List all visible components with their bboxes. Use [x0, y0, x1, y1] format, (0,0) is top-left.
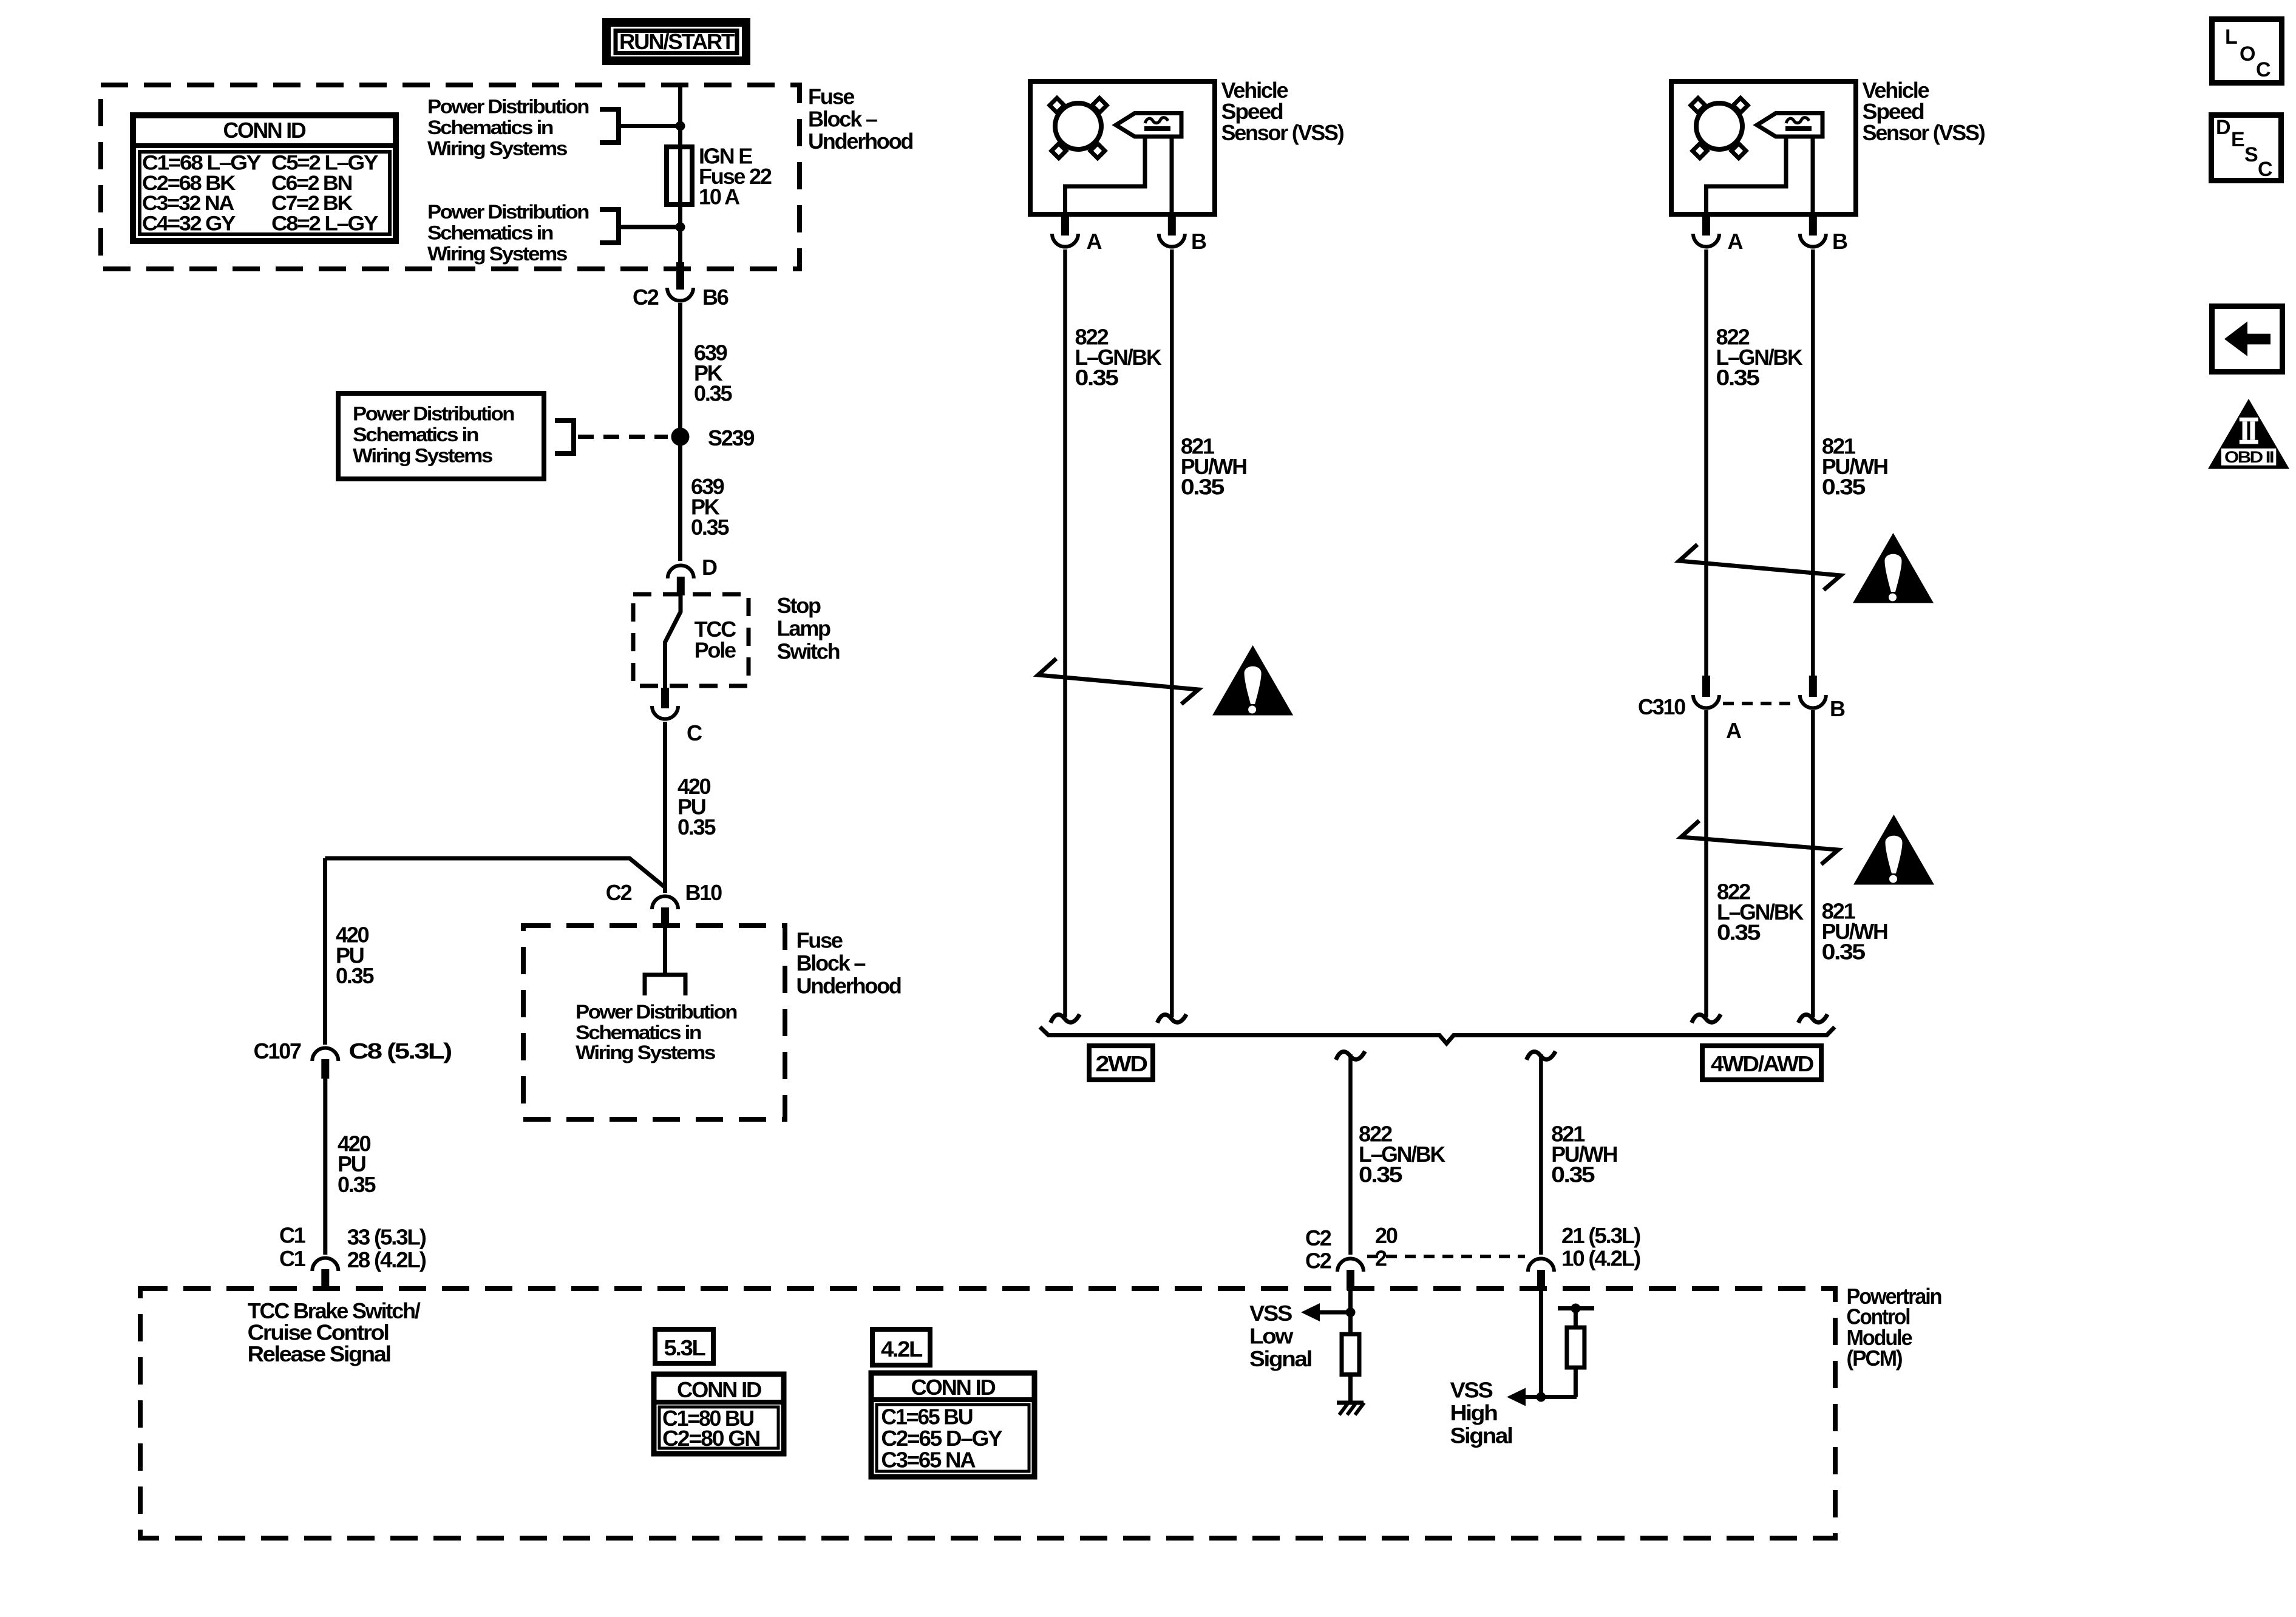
label C8 (5.3L)	[348, 1039, 452, 1063]
svg-text:Wiring Systems: Wiring Systems	[353, 445, 493, 467]
label C2 (B10)	[606, 880, 632, 905]
svg-text:C3=65 NA: C3=65 NA	[881, 1448, 976, 1473]
svg-text:0.35: 0.35	[338, 1172, 376, 1197]
component box Powertrain Control Module (dashed)	[140, 1289, 1835, 1538]
svg-text:Pole: Pole	[695, 638, 736, 663]
svg-text:Sensor (VSS): Sensor (VSS)	[1221, 120, 1344, 145]
svg-text:C1: C1	[279, 1223, 306, 1248]
label Vehicle Speed Sensor VSS (right)	[1863, 78, 1985, 145]
reference bracket S239 (dashed)	[555, 421, 668, 453]
label pins 20 2	[1375, 1223, 1398, 1271]
svg-text:VSS: VSS	[1249, 1301, 1292, 1326]
wire 420 PU branch lower	[323, 1079, 327, 1255]
svg-text:Signal: Signal	[1249, 1346, 1311, 1371]
svg-text:B: B	[1832, 229, 1847, 254]
connector C	[652, 688, 678, 719]
svg-text:Switch: Switch	[777, 639, 840, 663]
svg-text:B6: B6	[702, 285, 729, 310]
icon sensor pickup (right)	[1757, 114, 1822, 137]
label 33 (5.3L) 28 (4.2L)	[347, 1225, 426, 1273]
svg-text:0.35: 0.35	[1551, 1162, 1595, 1187]
junction dot (lower)	[676, 222, 685, 232]
label C1 C1	[279, 1223, 306, 1271]
svg-text:0.35: 0.35	[1359, 1162, 1402, 1187]
connector pin A (left)	[1052, 214, 1078, 247]
svg-text:0.35: 0.35	[1075, 365, 1119, 390]
svg-text:C5=2 L–GY: C5=2 L–GY	[271, 152, 379, 175]
svg-text:0.35: 0.35	[1181, 474, 1224, 499]
note Power Distribution Schematics in Wiring Systems (upper)	[427, 96, 589, 160]
svg-text:C2=80 GN: C2=80 GN	[662, 1426, 759, 1451]
svg-text:2: 2	[1375, 1246, 1387, 1271]
svg-text:0.35: 0.35	[1717, 920, 1761, 944]
wire stub into fuse block (continuation symbol)	[645, 927, 685, 995]
svg-text:28 (4.2L): 28 (4.2L)	[347, 1247, 426, 1272]
wire 822 L-GN/BK (to PCM)	[1348, 1054, 1353, 1255]
svg-text:Signal: Signal	[1450, 1423, 1512, 1448]
label Powertrain Control Module (PCM)	[1847, 1284, 1941, 1371]
connector pin B (left)	[1159, 214, 1185, 247]
wire 822 L-GN/BK (left A)	[1063, 249, 1067, 1017]
svg-text:High: High	[1450, 1400, 1497, 1425]
svg-text:Fuse: Fuse	[808, 84, 854, 109]
icon back arrow	[2212, 307, 2283, 372]
svg-text:Schematics in: Schematics in	[576, 1022, 701, 1043]
svg-text:C3=32 NA: C3=32 NA	[142, 192, 234, 215]
label C	[687, 720, 702, 745]
svg-text:Power Distribution: Power Distribution	[576, 1001, 737, 1023]
label C2 (B6)	[633, 285, 659, 310]
note box Power Distribution (S239)	[338, 393, 544, 479]
wire ignition feed	[678, 85, 682, 262]
svg-text:Power Distribution: Power Distribution	[353, 403, 514, 425]
label A (right)	[1728, 229, 1744, 254]
svg-text:Wiring Systems: Wiring Systems	[427, 243, 568, 265]
wire end squiggle (left B)	[1157, 1014, 1186, 1023]
reference bracket (upper)	[600, 109, 676, 143]
svg-text:10 (4.2L): 10 (4.2L)	[1561, 1246, 1640, 1271]
svg-text:0.35: 0.35	[336, 963, 374, 988]
svg-text:CONN ID: CONN ID	[911, 1375, 996, 1400]
arrow VSS Low Signal	[1301, 1303, 1351, 1321]
svg-text:D: D	[702, 555, 717, 580]
wire 821 PU/WH (left B)	[1170, 249, 1174, 1017]
connector C107 C8	[312, 1048, 338, 1079]
svg-text:C: C	[687, 720, 702, 745]
svg-text:Schematics in: Schematics in	[353, 424, 478, 446]
svg-text:4WD/AWD: 4WD/AWD	[1711, 1051, 1813, 1076]
label S239	[708, 425, 754, 450]
wire sensor internal (right)	[1707, 137, 1813, 214]
resistor PCM high	[1567, 1327, 1584, 1368]
connector link C2 (dashed)	[1367, 1255, 1525, 1258]
svg-text:Block –: Block –	[808, 106, 877, 131]
svg-text:C2: C2	[1305, 1225, 1331, 1250]
svg-text:Fuse: Fuse	[796, 928, 843, 953]
brace wire gather	[1040, 1027, 1835, 1043]
label 822 L-GN/BK 0.35 (left)	[1075, 324, 1162, 390]
warning triangle (right lower)	[1853, 815, 1934, 885]
label 639 PK 0.35 (upper)	[694, 341, 732, 406]
svg-text:C2=68 BK: C2=68 BK	[142, 172, 236, 195]
svg-text:L: L	[2225, 25, 2237, 49]
component box Fuse Block - Underhood 2 (dashed)	[523, 926, 785, 1119]
label A (left)	[1087, 229, 1102, 254]
fuse IGN E Fuse 22 10 A	[667, 147, 692, 205]
svg-text:0.35: 0.35	[1716, 365, 1760, 390]
wire 420 PU branch upper	[323, 858, 327, 1045]
label B10	[685, 880, 722, 905]
wire 822 L-GN/BK (right A lower)	[1704, 710, 1708, 1017]
svg-text:0.35: 0.35	[678, 815, 716, 839]
note Power Distribution Schematics in Wiring Systems (lower)	[427, 201, 589, 265]
break slash (right pair lower)	[1681, 821, 1838, 864]
svg-text:Schematics in: Schematics in	[427, 222, 553, 243]
svg-text:C8 (5.3L): C8 (5.3L)	[348, 1039, 452, 1063]
svg-text:A: A	[1728, 229, 1744, 254]
note Power Distribution (fuse block 2)	[576, 1001, 737, 1063]
label 420 PU 0.35 (upper)	[678, 774, 716, 839]
svg-text:Power Distribution: Power Distribution	[427, 201, 589, 223]
wire sensor internal (left)	[1065, 137, 1172, 214]
reference bracket (lower)	[600, 209, 676, 243]
wire end squiggle (right A)	[1692, 1014, 1721, 1023]
label Fuse Block - Underhood	[808, 84, 912, 154]
svg-text:10 A: 10 A	[699, 185, 740, 209]
label Vehicle Speed Sensor VSS (left)	[1221, 78, 1344, 145]
ground (PCM internal)	[1337, 1403, 1364, 1415]
svg-text:C310: C310	[1638, 694, 1685, 719]
wire start squiggle (VSS high)	[1526, 1051, 1555, 1060]
wire 821 PU/WH (right B upper)	[1811, 249, 1815, 676]
component box Vehicle Speed Sensor (right)	[1671, 81, 1856, 214]
svg-text:C6=2 BN: C6=2 BN	[271, 172, 352, 195]
connector D	[668, 566, 694, 596]
svg-text:VSS: VSS	[1450, 1378, 1493, 1403]
connector C2 B6	[667, 262, 693, 300]
wire to ground	[1348, 1375, 1353, 1403]
icon LOC	[2212, 19, 2282, 83]
svg-text:Block –: Block –	[796, 951, 866, 975]
label VSS High Signal	[1450, 1378, 1512, 1448]
svg-text:Underhood: Underhood	[796, 974, 901, 998]
connector C2 B10	[652, 896, 678, 927]
connector C1 pin 33/28	[312, 1258, 338, 1291]
tag box 5.3L	[655, 1329, 713, 1363]
svg-text:Power Distribution: Power Distribution	[427, 96, 589, 118]
svg-text:0.35: 0.35	[1822, 474, 1866, 499]
break slash (right pair upper)	[1679, 544, 1841, 590]
connector link C310 (dashed)	[1723, 702, 1795, 705]
label 420 PU 0.35 (branch upper)	[336, 923, 374, 989]
warning triangle (right upper)	[1853, 533, 1934, 603]
wire 821 PU/WH (to PCM)	[1539, 1054, 1543, 1255]
wire 821 PU/WH (right B lower)	[1811, 710, 1815, 1017]
label D	[702, 555, 717, 580]
connector pin B (right)	[1800, 214, 1826, 247]
label 420 PU 0.35 (branch lower)	[338, 1131, 376, 1197]
wire 420 PU	[663, 722, 667, 893]
svg-text:5.3L: 5.3L	[664, 1335, 705, 1360]
table CONN ID (fuse block)	[133, 115, 396, 241]
svg-text:C7=2 BK: C7=2 BK	[271, 192, 353, 215]
label Fuse Block - Underhood 2	[796, 928, 901, 998]
icon reluctor wheel (right)	[1691, 98, 1748, 158]
label C310	[1638, 694, 1685, 719]
label B (right)	[1832, 229, 1847, 254]
component box Stop Lamp Switch (dashed)	[633, 594, 749, 686]
svg-text:Schematics in: Schematics in	[427, 117, 553, 138]
icon OBD II	[2208, 399, 2289, 469]
icon sensor pickup (left)	[1116, 114, 1181, 137]
svg-text:A: A	[1087, 229, 1102, 254]
svg-text:33 (5.3L): 33 (5.3L)	[347, 1225, 426, 1250]
switch TCC Pole contact	[665, 595, 681, 688]
label pins 21 10	[1561, 1223, 1640, 1271]
svg-text:A: A	[1726, 718, 1742, 743]
svg-text:C1=68 L–GY: C1=68 L–GY	[142, 152, 262, 175]
table CONN ID 4.2L	[871, 1373, 1034, 1477]
svg-text:C4=32 GY: C4=32 GY	[142, 212, 236, 235]
connector C2 pin 20/2	[1337, 1259, 1364, 1291]
svg-text:Underhood: Underhood	[808, 129, 912, 154]
svg-text:0.35: 0.35	[1822, 940, 1866, 964]
svg-text:C107: C107	[254, 1039, 301, 1063]
resistor PCM low	[1342, 1334, 1359, 1375]
tag box 4WD/AWD	[1702, 1046, 1821, 1080]
connector pin A (right)	[1693, 214, 1719, 247]
svg-text:E: E	[2231, 128, 2244, 151]
svg-text:4.2L: 4.2L	[881, 1337, 922, 1361]
label C310 B	[1830, 696, 1845, 721]
label 821 PU/WH 0.35 (left)	[1181, 433, 1246, 499]
table CONN ID 5.3L	[654, 1374, 784, 1454]
wire end squiggle (right B)	[1798, 1014, 1827, 1023]
junction dot (upper)	[676, 121, 685, 131]
svg-text:RUN/START: RUN/START	[619, 29, 735, 54]
svg-text:C1: C1	[279, 1246, 306, 1271]
wire resistor to junction	[1526, 1368, 1577, 1397]
svg-text:C2: C2	[633, 285, 659, 310]
label Stop Lamp Switch	[777, 593, 840, 664]
svg-text:2WD: 2WD	[1096, 1051, 1147, 1076]
component box Fuse Block - Underhood (dashed)	[101, 85, 800, 269]
svg-text:B: B	[1830, 696, 1845, 721]
svg-text:Release Signal: Release Signal	[248, 1341, 390, 1366]
connector C310 A	[1693, 676, 1719, 708]
svg-text:CONN ID: CONN ID	[677, 1377, 761, 1402]
junction dot VSS high	[1536, 1392, 1546, 1402]
svg-text:Stop: Stop	[777, 593, 821, 618]
label TCC Brake Switch Cruise Control Release Signal	[248, 1298, 421, 1366]
svg-text:S: S	[2244, 143, 2258, 166]
svg-text:OBD II: OBD II	[2224, 448, 2274, 466]
svg-text:(PCM): (PCM)	[1847, 1346, 1903, 1371]
label 639 PK 0.35 (lower)	[691, 474, 729, 540]
wire VSS low signal	[1348, 1290, 1353, 1334]
component box Vehicle Speed Sensor (left)	[1030, 81, 1215, 214]
svg-text:C8=2 L–GY: C8=2 L–GY	[271, 212, 379, 235]
svg-text:C2: C2	[606, 880, 632, 905]
label 821 PU/WH 0.35 (right lower)	[1822, 899, 1887, 964]
break slash (left pair)	[1038, 659, 1198, 704]
svg-text:B10: B10	[685, 880, 722, 905]
label C107	[254, 1039, 301, 1063]
connector C310 B	[1800, 676, 1826, 708]
label C310 A	[1726, 718, 1742, 743]
wire branch to C107	[325, 858, 665, 887]
tag box 4.2L	[872, 1329, 930, 1365]
label B (left)	[1191, 229, 1206, 254]
svg-text:B: B	[1191, 229, 1206, 254]
svg-text:Sensor (VSS): Sensor (VSS)	[1863, 120, 1985, 145]
label VSS Low Signal	[1249, 1301, 1311, 1371]
power feed box RUN/START	[606, 22, 746, 61]
svg-text:20: 20	[1375, 1223, 1398, 1248]
svg-text:O: O	[2240, 42, 2255, 66]
svg-text:Wiring Systems: Wiring Systems	[576, 1042, 716, 1063]
label IGN E Fuse 22 10 A	[699, 144, 772, 209]
svg-text:S239: S239	[708, 425, 754, 450]
wire start squiggle (VSS low)	[1336, 1051, 1365, 1060]
svg-text:Wiring Systems: Wiring Systems	[427, 138, 568, 160]
label 822 L-GN/BK 0.35 (right upper)	[1716, 324, 1803, 390]
label TCC Pole	[695, 617, 737, 663]
label 822 L-GN/BK 0.35 (middle)	[1359, 1122, 1445, 1187]
warning triangle (left)	[1212, 645, 1293, 716]
wire end squiggle (left A)	[1051, 1014, 1080, 1023]
svg-text:0.35: 0.35	[694, 381, 732, 406]
label C2 C2 (PCM)	[1305, 1225, 1331, 1273]
svg-text:D: D	[2216, 116, 2230, 139]
junction dot VSS low	[1346, 1307, 1356, 1317]
svg-text:C2: C2	[1305, 1249, 1331, 1273]
svg-text:C: C	[2258, 158, 2272, 181]
wire VSS high signal	[1539, 1290, 1543, 1397]
wire 822 L-GN/BK (right A upper)	[1704, 249, 1708, 676]
svg-text:0.35: 0.35	[691, 515, 729, 540]
wire to resistor high	[1574, 1309, 1578, 1328]
junction dot high top	[1571, 1304, 1580, 1314]
icon DESC	[2212, 115, 2281, 181]
wire 639 PK	[678, 303, 682, 561]
label B6	[702, 285, 729, 310]
arrow VSS High Signal	[1507, 1388, 1526, 1406]
label 821 PU/WH 0.35 (right upper)	[1822, 433, 1887, 499]
splice S239	[671, 428, 690, 446]
svg-text:C: C	[2256, 58, 2271, 81]
label 822 L-GN/BK 0.35 (right lower)	[1717, 879, 1804, 944]
tag box 2WD	[1089, 1046, 1153, 1080]
connector C2 pin 21/10	[1528, 1259, 1554, 1291]
label 821 PU/WH 0.35 (middle)	[1551, 1122, 1617, 1187]
stub bar (high)	[1558, 1306, 1594, 1310]
svg-text:21 (5.3L): 21 (5.3L)	[1561, 1223, 1640, 1248]
icon reluctor wheel (left)	[1050, 98, 1107, 158]
svg-text:Low: Low	[1249, 1324, 1294, 1349]
svg-text:Lamp: Lamp	[777, 616, 830, 641]
svg-text:CONN ID: CONN ID	[223, 118, 306, 143]
